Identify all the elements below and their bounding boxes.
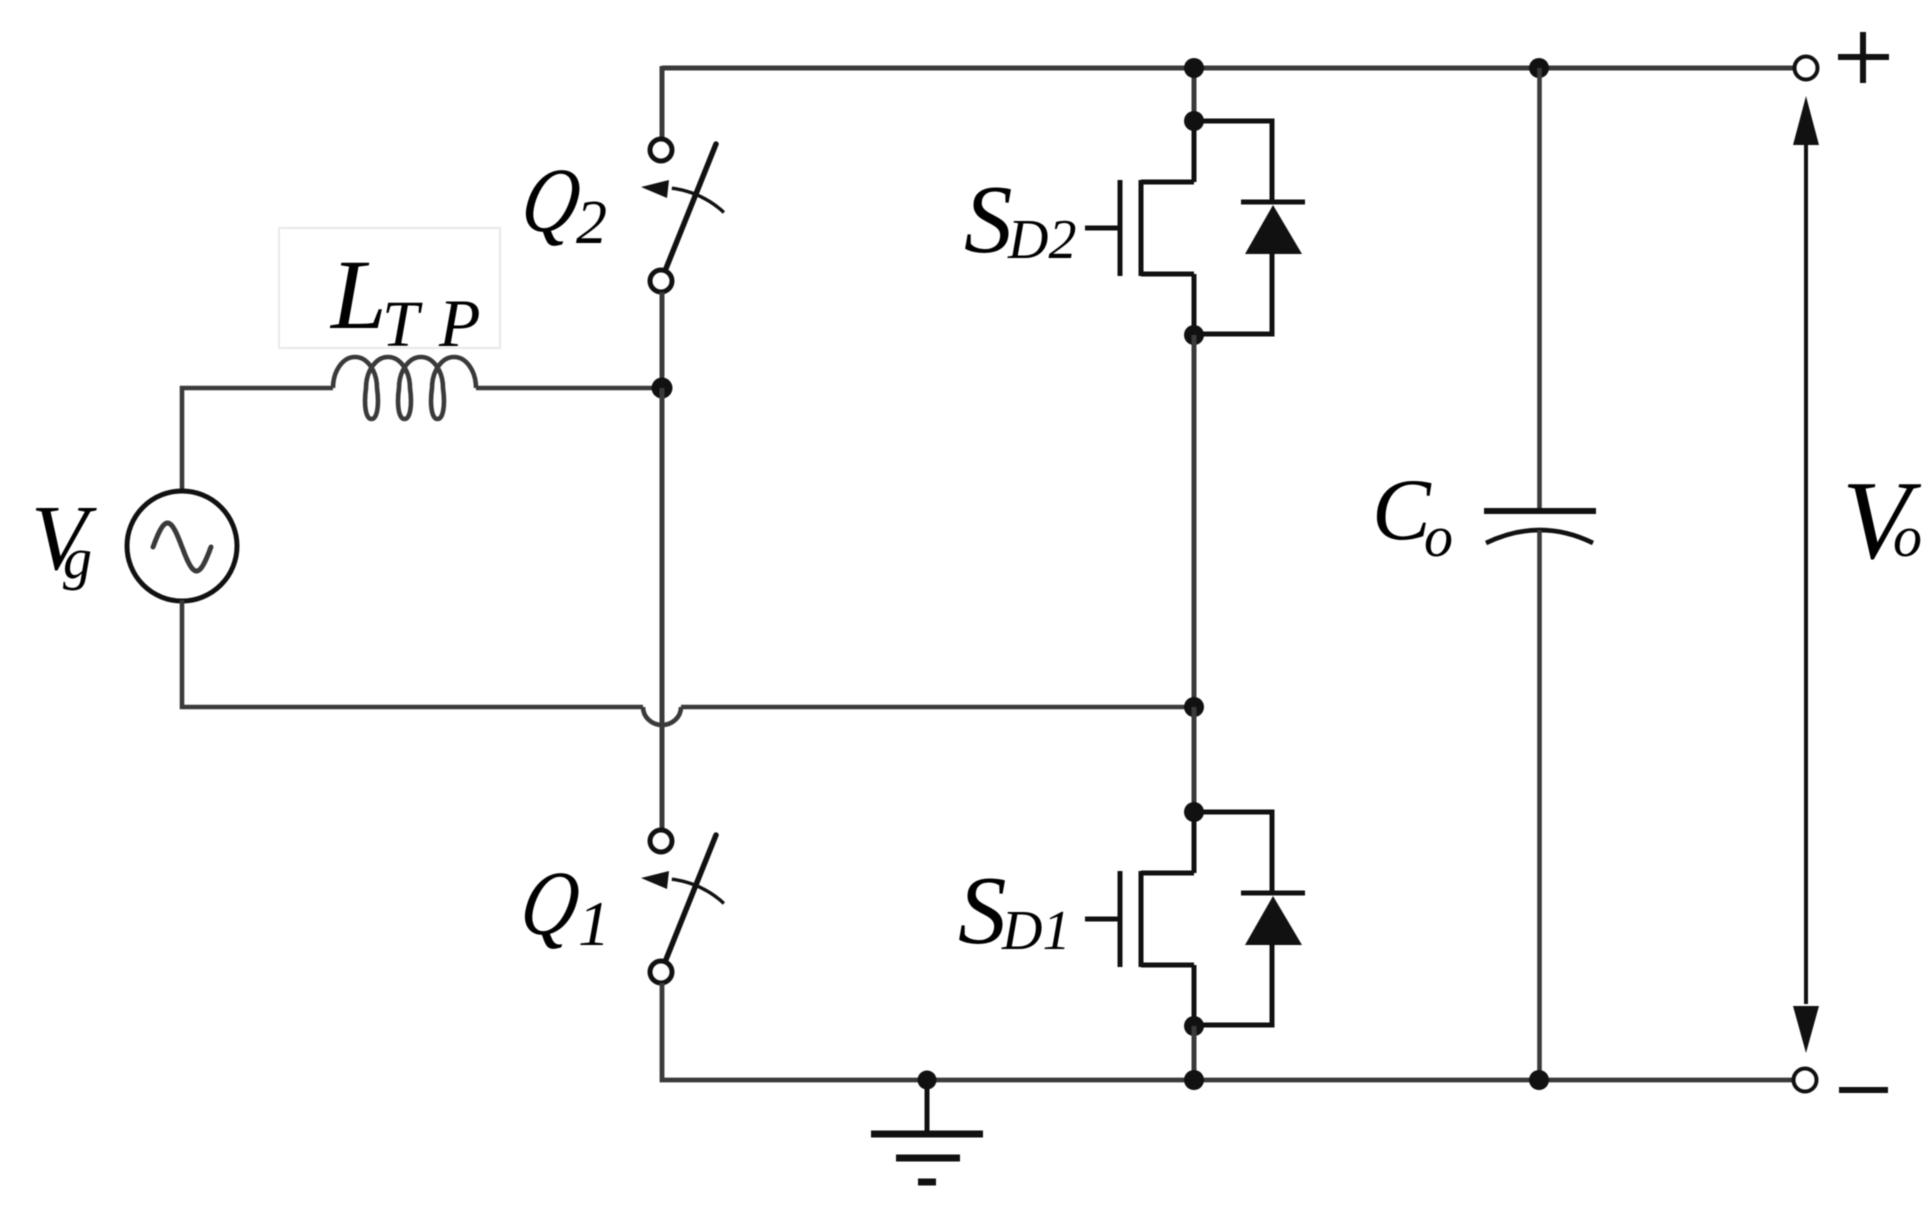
node: ground junction [918, 1071, 937, 1090]
svg-text:g: g [63, 526, 92, 591]
body diode of SD2 [1194, 121, 1305, 334]
switch Q1 arrowhead [641, 871, 669, 889]
node: SD2 source [1184, 325, 1204, 345]
svg-text:2: 2 [576, 189, 607, 257]
svg-text:Q: Q [513, 852, 587, 954]
svg-text:1: 1 [578, 888, 610, 959]
mosfet SD1 body [1085, 812, 1194, 1026]
ac source Vg circle [127, 491, 237, 601]
switch Q1 lower contact [650, 961, 672, 983]
switch Q1 upper contact [650, 830, 672, 852]
svg-text:S: S [964, 166, 1013, 273]
Vo arrow lower head [1793, 1006, 1819, 1053]
switch Q1 blade [665, 835, 716, 962]
svg-text:P: P [438, 285, 481, 361]
node: bottom rail / Co [1529, 1070, 1549, 1090]
svg-text:D1: D1 [1001, 900, 1070, 962]
node: bottom rail / SD1 [1184, 1070, 1204, 1090]
ac source Vg sine [153, 523, 211, 571]
output + terminal [1795, 57, 1818, 80]
wire: Co top lead [1537, 68, 1542, 509]
capacitor Co bottom plate (curved) [1486, 530, 1593, 543]
inductor LTP coil [333, 357, 476, 419]
svg-text:o: o [1893, 504, 1922, 569]
wire: top rail node down to SD2 [1192, 68, 1197, 121]
svg-text:D2: D2 [1007, 209, 1076, 271]
switch Q2 actuation arc [672, 188, 724, 212]
svg-text:S: S [958, 857, 1007, 964]
wire: left drop from top rail to switch Q2 [660, 66, 665, 137]
node: SD1 drain [1184, 802, 1204, 822]
label LTP background box [279, 228, 500, 348]
node: top rail / SD2 [1184, 58, 1204, 78]
output - terminal [1794, 1069, 1817, 1092]
wire: vertical through hop down to switch Q1 [660, 388, 665, 828]
label Q1 [513, 852, 587, 954]
svg-text:L: L [329, 239, 387, 350]
mosfet SD2 body [1085, 121, 1194, 335]
wire: mid rail right of hop to MOSFET midpoint [681, 705, 1194, 710]
wire: SD1 source to bottom rail [1192, 1026, 1197, 1080]
node: top rail / Co [1529, 58, 1549, 78]
node: SD2 drain [1184, 111, 1204, 131]
label Q2 [514, 149, 588, 251]
switch Q2 blade [665, 144, 716, 271]
Vo arrow upper head [1793, 96, 1819, 145]
switch Q1 actuation arc [672, 879, 724, 903]
node: mid rail / MOSFET midpoint [1184, 697, 1204, 717]
node: inductor / Q2 / Q1 junction [652, 378, 673, 399]
wire: SD2 source to mid node [1192, 335, 1197, 707]
ground symbol [871, 1080, 983, 1182]
svg-text:T: T [382, 288, 423, 361]
switch Q2 arrowhead [641, 180, 669, 198]
wire: Vg top lead to inductor [182, 388, 333, 494]
svg-text:C: C [1372, 462, 1432, 559]
wire: Q1 to bottom rail corner [662, 983, 1794, 1080]
wire: mid node down to SD1 [1192, 707, 1197, 812]
wire: Vg bottom lead and mid rail left of hop [182, 600, 643, 707]
wire: inductor to node [476, 386, 662, 391]
wire: top rail from Q2 column to + terminal [662, 66, 1794, 71]
node: SD1 source [1184, 1016, 1204, 1036]
switch Q2 lower contact [650, 270, 672, 292]
body diode of SD1 [1194, 812, 1305, 1025]
plus sign [1838, 32, 1889, 83]
wire hop (no-connection crossover) [643, 707, 681, 725]
svg-text:o: o [1424, 504, 1453, 569]
capacitor Co top plate [1484, 508, 1596, 514]
wire: Co bottom lead [1537, 530, 1542, 1080]
Vo arrow shaft [1804, 143, 1808, 1004]
wire: Q2 lower contact to inductor node [660, 292, 665, 390]
minus sign [1839, 1087, 1888, 1093]
switch Q2 upper contact [650, 139, 672, 161]
